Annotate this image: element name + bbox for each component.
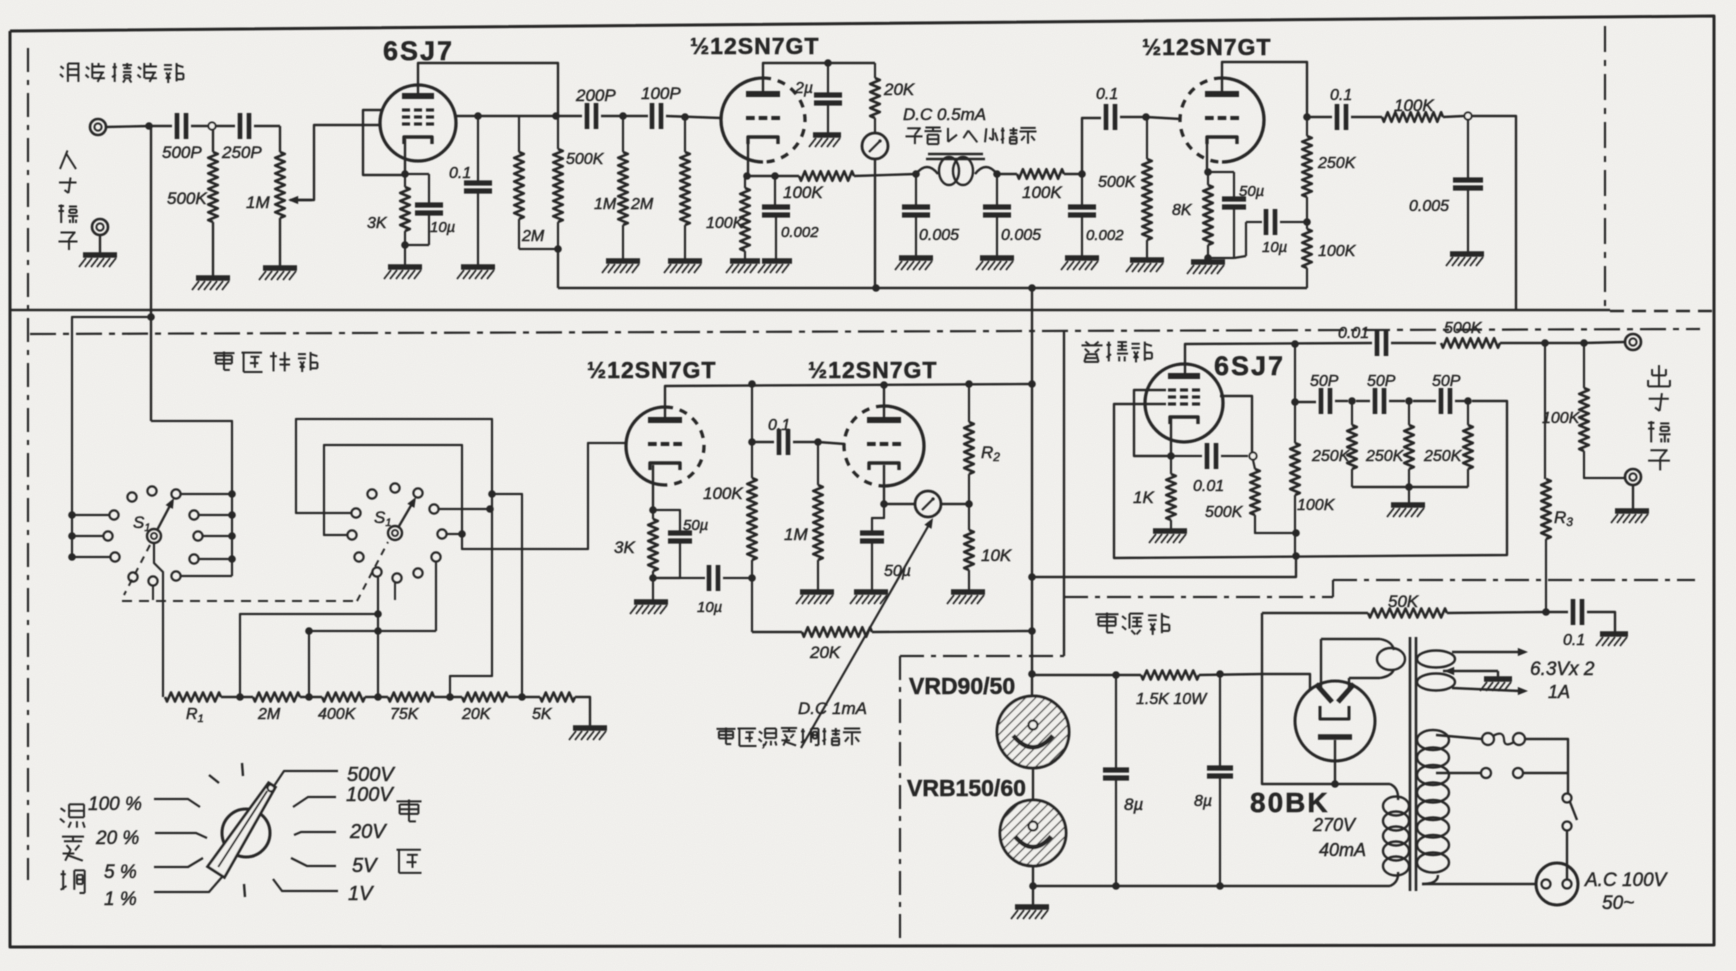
wire 0.1 to grid node [1120, 116, 1146, 118]
dial tick marks [242, 763, 243, 776]
fuse [1482, 733, 1494, 745]
ground under 500K grid leak [1130, 257, 1164, 263]
resistor 100K divider lower [1302, 229, 1312, 268]
ground under 100K cathode [730, 258, 760, 264]
capacitor 0.1 to ground [1571, 599, 1576, 625]
heater winding 6.3V right [1417, 651, 1455, 668]
phase network 50P row wire [1295, 401, 1316, 403]
ground under 10K [951, 589, 985, 595]
input terminal upper [90, 119, 106, 135]
resistor 2M second grid leak [684, 117, 686, 152]
label level indication (kanji) [907, 127, 921, 129]
switch to plug [1566, 830, 1568, 879]
ground under 1M pot [263, 265, 297, 271]
resistor 250K third [1467, 401, 1469, 425]
resistor 3K cathode bias [652, 510, 654, 519]
ground phase network [1408, 487, 1410, 503]
capacitor 0.01 output top [1375, 330, 1380, 356]
capacitor 0.1 interstage [752, 441, 774, 443]
capacitor 200P coupling [585, 103, 590, 129]
resistor 500K input shunt [212, 130, 214, 152]
power ground bus [1033, 885, 1390, 887]
node plate junction [552, 112, 560, 120]
cathode lead oscillator [1170, 418, 1172, 456]
label voltage-distortion indication (kanji) [717, 728, 736, 730]
node 2u junction [824, 59, 832, 67]
chain wire R1-2M [221, 696, 253, 698]
heater center tap to ground [1443, 670, 1498, 672]
screen/plate node line [456, 115, 582, 117]
triode voltmeter second [884, 406, 924, 486]
wire grid node to tube [1146, 117, 1181, 119]
wire contact to inner loop [447, 533, 462, 535]
B+ 50K line [1262, 612, 1368, 614]
B+ bus of top band [558, 287, 1307, 289]
plate lead second triode [1222, 62, 1307, 117]
capacitor 50u meter bypass [872, 504, 884, 531]
section label power (kanji) [1096, 613, 1119, 615]
meter range dial knob [222, 809, 270, 857]
capacitor 0.1 coupling [1104, 104, 1109, 130]
plate lead oscillator [1185, 343, 1372, 376]
wire to B+ bus [557, 249, 559, 288]
HV secondary winding left [1383, 797, 1409, 816]
divider chain resistor 20K [462, 693, 508, 702]
resistor 500K plate load first stage [557, 116, 559, 149]
capacitor 100P coupling [650, 103, 655, 129]
wire left feed bus [72, 317, 151, 557]
ground chain end [573, 725, 607, 731]
wire S1 right contacts [181, 493, 232, 495]
grid lead oscillator [1220, 396, 1252, 452]
filter line 1.5K [1033, 674, 1116, 676]
ground under 8K [1191, 259, 1225, 265]
node filter output [993, 170, 1001, 178]
section label oscillator (kanji) [1085, 342, 1089, 346]
solid vertical divider between voltmeter and oscillator sections [1063, 332, 1065, 656]
wire 100K to filter [854, 174, 916, 176]
resistor 1.5K 10W [1116, 674, 1141, 676]
ground under output 0.005 [1450, 251, 1484, 257]
primary winding right [1417, 730, 1449, 750]
triode voltmeter first [626, 407, 665, 485]
resistor 250K second [1408, 401, 1410, 425]
fuse to switch corner [1525, 739, 1568, 765]
capacitor 8u second [1219, 674, 1221, 766]
capacitor 0.1 screen bypass [477, 116, 479, 181]
capacitor 500P [175, 113, 180, 139]
meter DC 0.5mA level indicator [862, 133, 888, 159]
ground under 0.1 [461, 264, 495, 270]
rectifier plate leads [1320, 639, 1322, 688]
resistor 10K [968, 504, 970, 530]
ground under 500K [196, 275, 230, 281]
rectifier cathode bar [1318, 734, 1352, 740]
ground under 1M grid [800, 589, 834, 595]
resistor 8K cathode [1207, 172, 1209, 185]
heater lead top with arrow [1452, 651, 1520, 653]
node after 100P [681, 113, 689, 121]
plate lead to top [763, 63, 875, 91]
resistor 3K cathode [400, 187, 410, 231]
wire filter to 100K [997, 173, 1017, 175]
resistor 500K oscillator [1253, 460, 1255, 469]
capacitor 10u coupling to divider [1245, 222, 1247, 256]
cathode lead triode1 [747, 141, 749, 176]
rotary switch S1 left [147, 529, 161, 543]
label voltage (kanji vertical) [397, 800, 422, 802]
ground after 0.1 [1600, 631, 1628, 637]
feedback line 20K [752, 631, 802, 633]
wire 200P to 100P [601, 115, 648, 117]
HV winding top lead [1390, 784, 1398, 800]
resistor 100K second series [1017, 169, 1064, 179]
cathode lead tube2 [883, 465, 885, 504]
capacitor 50P second [1356, 400, 1370, 402]
capacitor 2u decoupling [827, 63, 829, 93]
capacitor 8u first [1115, 675, 1117, 768]
ground heater CT [1484, 676, 1512, 682]
plate lead tube2 [883, 385, 885, 417]
cathode net line [745, 175, 799, 177]
tube 6SJ7 oscillator [1145, 364, 1223, 442]
chain wire 400K-75K [365, 696, 388, 698]
scan noise overlay [0, 0, 1, 1]
ground under 1M grid leak [606, 258, 640, 264]
ground under 50u [854, 589, 888, 595]
wire 250K bottoms [1352, 486, 1468, 488]
output label (kanji vertical) [1658, 365, 1660, 386]
section label voltmeter (kanji) [214, 352, 235, 354]
meter DC 1mA indicator [915, 491, 941, 517]
HV winding bottom lead [1390, 872, 1398, 886]
rectifier filament staple [1320, 706, 1349, 719]
dial left label lines [154, 799, 200, 807]
ground output terminal [1615, 508, 1649, 514]
wire to output terminal upper [1584, 342, 1624, 343]
annotation arrow DC 1mA [801, 523, 930, 748]
plate lead 6SJ7 [418, 63, 558, 116]
terminal to ground [1632, 485, 1634, 509]
chain wire 2M-400K [300, 696, 322, 698]
plug to primary bottom [1422, 883, 1537, 885]
resistor 500K grid leak 2 [1146, 117, 1148, 159]
resistor 1M grid leak [622, 116, 624, 152]
wire staircase to chain 2M-400K [309, 631, 436, 697]
plate winding loop [1377, 648, 1405, 670]
resistor 500K output series [1441, 338, 1500, 348]
capacitor 10u cathode bypass [405, 173, 429, 175]
dial pointer [208, 783, 276, 878]
ground under 0.002 [762, 258, 792, 264]
resistor 50K [1368, 609, 1447, 618]
rotary switch S2 right [388, 526, 402, 540]
chain end to ground [575, 697, 590, 726]
ground under 0.005 second [980, 255, 1014, 261]
wire node to C 250P [216, 125, 235, 127]
wire 50K to R3 node [1447, 612, 1546, 613]
resistor 100K plate load with taps [751, 384, 753, 478]
wire S1 pole to divider chain [154, 543, 163, 697]
regulator tube VRB150/60 [1000, 800, 1066, 866]
triode half-12SN7GT second [1222, 78, 1264, 162]
B+ drop line to power section [1031, 288, 1033, 696]
wire meter to R2 node [941, 503, 969, 505]
wire to riser [1064, 173, 1082, 175]
wire right feed bus of S1 [151, 421, 232, 576]
wire regulator to ground bus [1032, 866, 1034, 886]
wire input to junction [106, 126, 149, 127]
transformer core [1409, 637, 1412, 891]
filter choke (interphase coil) [928, 153, 983, 155]
ground under 2M [668, 258, 702, 264]
input terminal lower [92, 219, 108, 235]
wire terminal to ground [99, 235, 101, 253]
label modulation (kanji vertical) [61, 808, 66, 811]
wire 100P to tube grid [666, 116, 721, 118]
resistor 100K output shunt [1583, 343, 1585, 388]
wire oscillator B+ to power rail [1032, 556, 1296, 577]
capacitor 50u cathode bypass [1208, 171, 1234, 173]
plate lead and B+ line [665, 384, 1032, 417]
resistor 1M grid [817, 442, 819, 485]
resistor 100K cathode [744, 176, 746, 188]
node input junction [145, 122, 153, 130]
wire to C 500P [149, 125, 172, 127]
capacitor 250P [238, 113, 243, 139]
node after 200P [619, 112, 627, 120]
wire staircase to chain R1-2M [240, 614, 378, 697]
resistor 100K series [799, 171, 854, 181]
wire control grid to feedback network [1114, 401, 1507, 558]
B+ rail from rectifier [1262, 613, 1335, 784]
cathode lead 6SJ7 [404, 139, 406, 174]
regulator tube VRD90/50 [997, 696, 1069, 768]
wire S1 left contacts to bus [72, 514, 109, 516]
capacitor 0.005 output shunt [1467, 120, 1469, 178]
resistor R3 dropping [1544, 343, 1546, 479]
wire wiper to 6SJ7 control grid [290, 125, 379, 200]
primary tap to switch contact [1436, 772, 1481, 774]
wire contact to outer loop [439, 508, 490, 510]
AC plug [1536, 863, 1578, 905]
ground under 3K [388, 264, 422, 270]
cathode lead second triode [1207, 141, 1208, 172]
wire contact drop to chain 400K-75K [377, 577, 379, 697]
wire S2 inner loop to tube grid [324, 443, 626, 549]
capacitor 0.002 shunt [1081, 174, 1083, 205]
wire node to 0.1 cap [1546, 611, 1568, 613]
grid wire tube2 [818, 442, 845, 444]
node output open circle [1464, 112, 1471, 119]
wire cathode to meter [884, 503, 915, 505]
dash-dot divider under top band (section boundary) [30, 329, 1700, 334]
input terminal label (vertical) [60, 151, 68, 170]
node junction small circle [208, 122, 215, 129]
capacitor 0.1 output coupling [1307, 116, 1332, 118]
capacitor 50P first [1319, 388, 1324, 414]
dashed gang linkage [124, 545, 150, 595]
resistor 20K meter feed [874, 63, 876, 78]
capacitor 0.005 second [996, 174, 998, 205]
divider chain resistor 75K [388, 693, 434, 702]
power section dash-dot border [1064, 596, 1333, 598]
capacitor 0.01 oscillator [1171, 455, 1202, 457]
wire riser to 0.1 cap [1082, 118, 1101, 174]
node 2M bottom [554, 245, 562, 253]
ground under 2u [813, 132, 841, 138]
wire 0.01 to 500K [1391, 342, 1436, 344]
resistor 250K first [1351, 401, 1353, 425]
wire C500P to node [191, 125, 208, 127]
power switch contacts [1567, 773, 1569, 793]
ground under 0.005 first [899, 255, 933, 261]
resistor 100K oscillator plate [1294, 344, 1296, 443]
chain wire 75K-20K [434, 696, 462, 698]
resistor 1K cathode [1170, 456, 1172, 474]
resistor 250K divider upper [1302, 136, 1312, 197]
chain wire 20K-5K [508, 696, 540, 698]
plate winding leads [1321, 638, 1380, 640]
section label (filter-detector) [61, 66, 64, 69]
resistor R2 [968, 384, 970, 422]
cathode lead voltmeter tube1 [652, 465, 654, 510]
capacitor 0.005 first [915, 174, 917, 205]
wire 8K to ground [1207, 258, 1209, 260]
divider chain resistor 2M [253, 693, 300, 702]
section border line below filter-detector band [10, 309, 1610, 312]
left dash-dot section border [27, 48, 29, 880]
wire 1.5K to rectifier filament [1262, 674, 1310, 690]
capacitor 0.002 cathode [771, 172, 779, 180]
ground under 0.002 shunt [1065, 255, 1099, 261]
resistor 100K output series [1382, 112, 1443, 122]
ground regulator string [1015, 904, 1049, 910]
cathode lead to B+ rail [1334, 740, 1336, 784]
divider chain resistor 5K [540, 693, 575, 702]
triode half-12SN7GT top band [721, 78, 763, 162]
wire S2 pole stub [394, 583, 396, 600]
wire meter to bus [874, 159, 876, 288]
wire input drop to voltmeter section [150, 126, 152, 421]
wire C250P to potentiometer [254, 125, 280, 127]
output terminal lower [1625, 469, 1641, 485]
primary top lead to fuse [1436, 735, 1482, 739]
wire S2 outer loop [296, 419, 492, 697]
node screen bypass junction [474, 112, 482, 120]
wire 100K to node [1443, 116, 1464, 117]
divider chain resistor 400K [322, 693, 365, 702]
wire S1 lower stub [152, 586, 154, 600]
rectifier tube 80BK [1295, 681, 1375, 761]
wire contact drop to staircase 1 [435, 562, 437, 631]
capacitor 10u series to feedback [653, 577, 705, 579]
node oscillator grid circle [1249, 452, 1256, 459]
dial right label lines [274, 771, 338, 786]
resistor 2M plate-side [518, 116, 520, 152]
wire suppressor grid to cathode loop [363, 110, 405, 175]
wire suppressor to cathode oscillator [1134, 390, 1168, 456]
capacitor 50u bias bypass [653, 510, 680, 531]
capacitor 50P third [1413, 400, 1436, 402]
ground input terminal [83, 252, 117, 258]
ground under 1K [1153, 528, 1187, 534]
wire node to right drop [1472, 116, 1516, 309]
dash-dot vertical divider right of top band [1604, 26, 1606, 310]
divider chain resistor R1 [165, 693, 221, 702]
wiper arrow of 1M [292, 199, 312, 201]
ground tube1 bias [634, 599, 668, 605]
rectifier plates V [1316, 684, 1332, 702]
output terminal upper [1625, 334, 1641, 350]
heater lead bottom with arrow [1452, 688, 1520, 691]
wire 500K to output node [1500, 342, 1545, 344]
potentiometer 1M [279, 126, 281, 152]
wire between regulator tubes [1032, 768, 1034, 800]
node filter input [912, 170, 920, 178]
wire 0.1 to 100K [1351, 116, 1382, 118]
wire S2 outer to chain 20K-5K [492, 494, 522, 697]
